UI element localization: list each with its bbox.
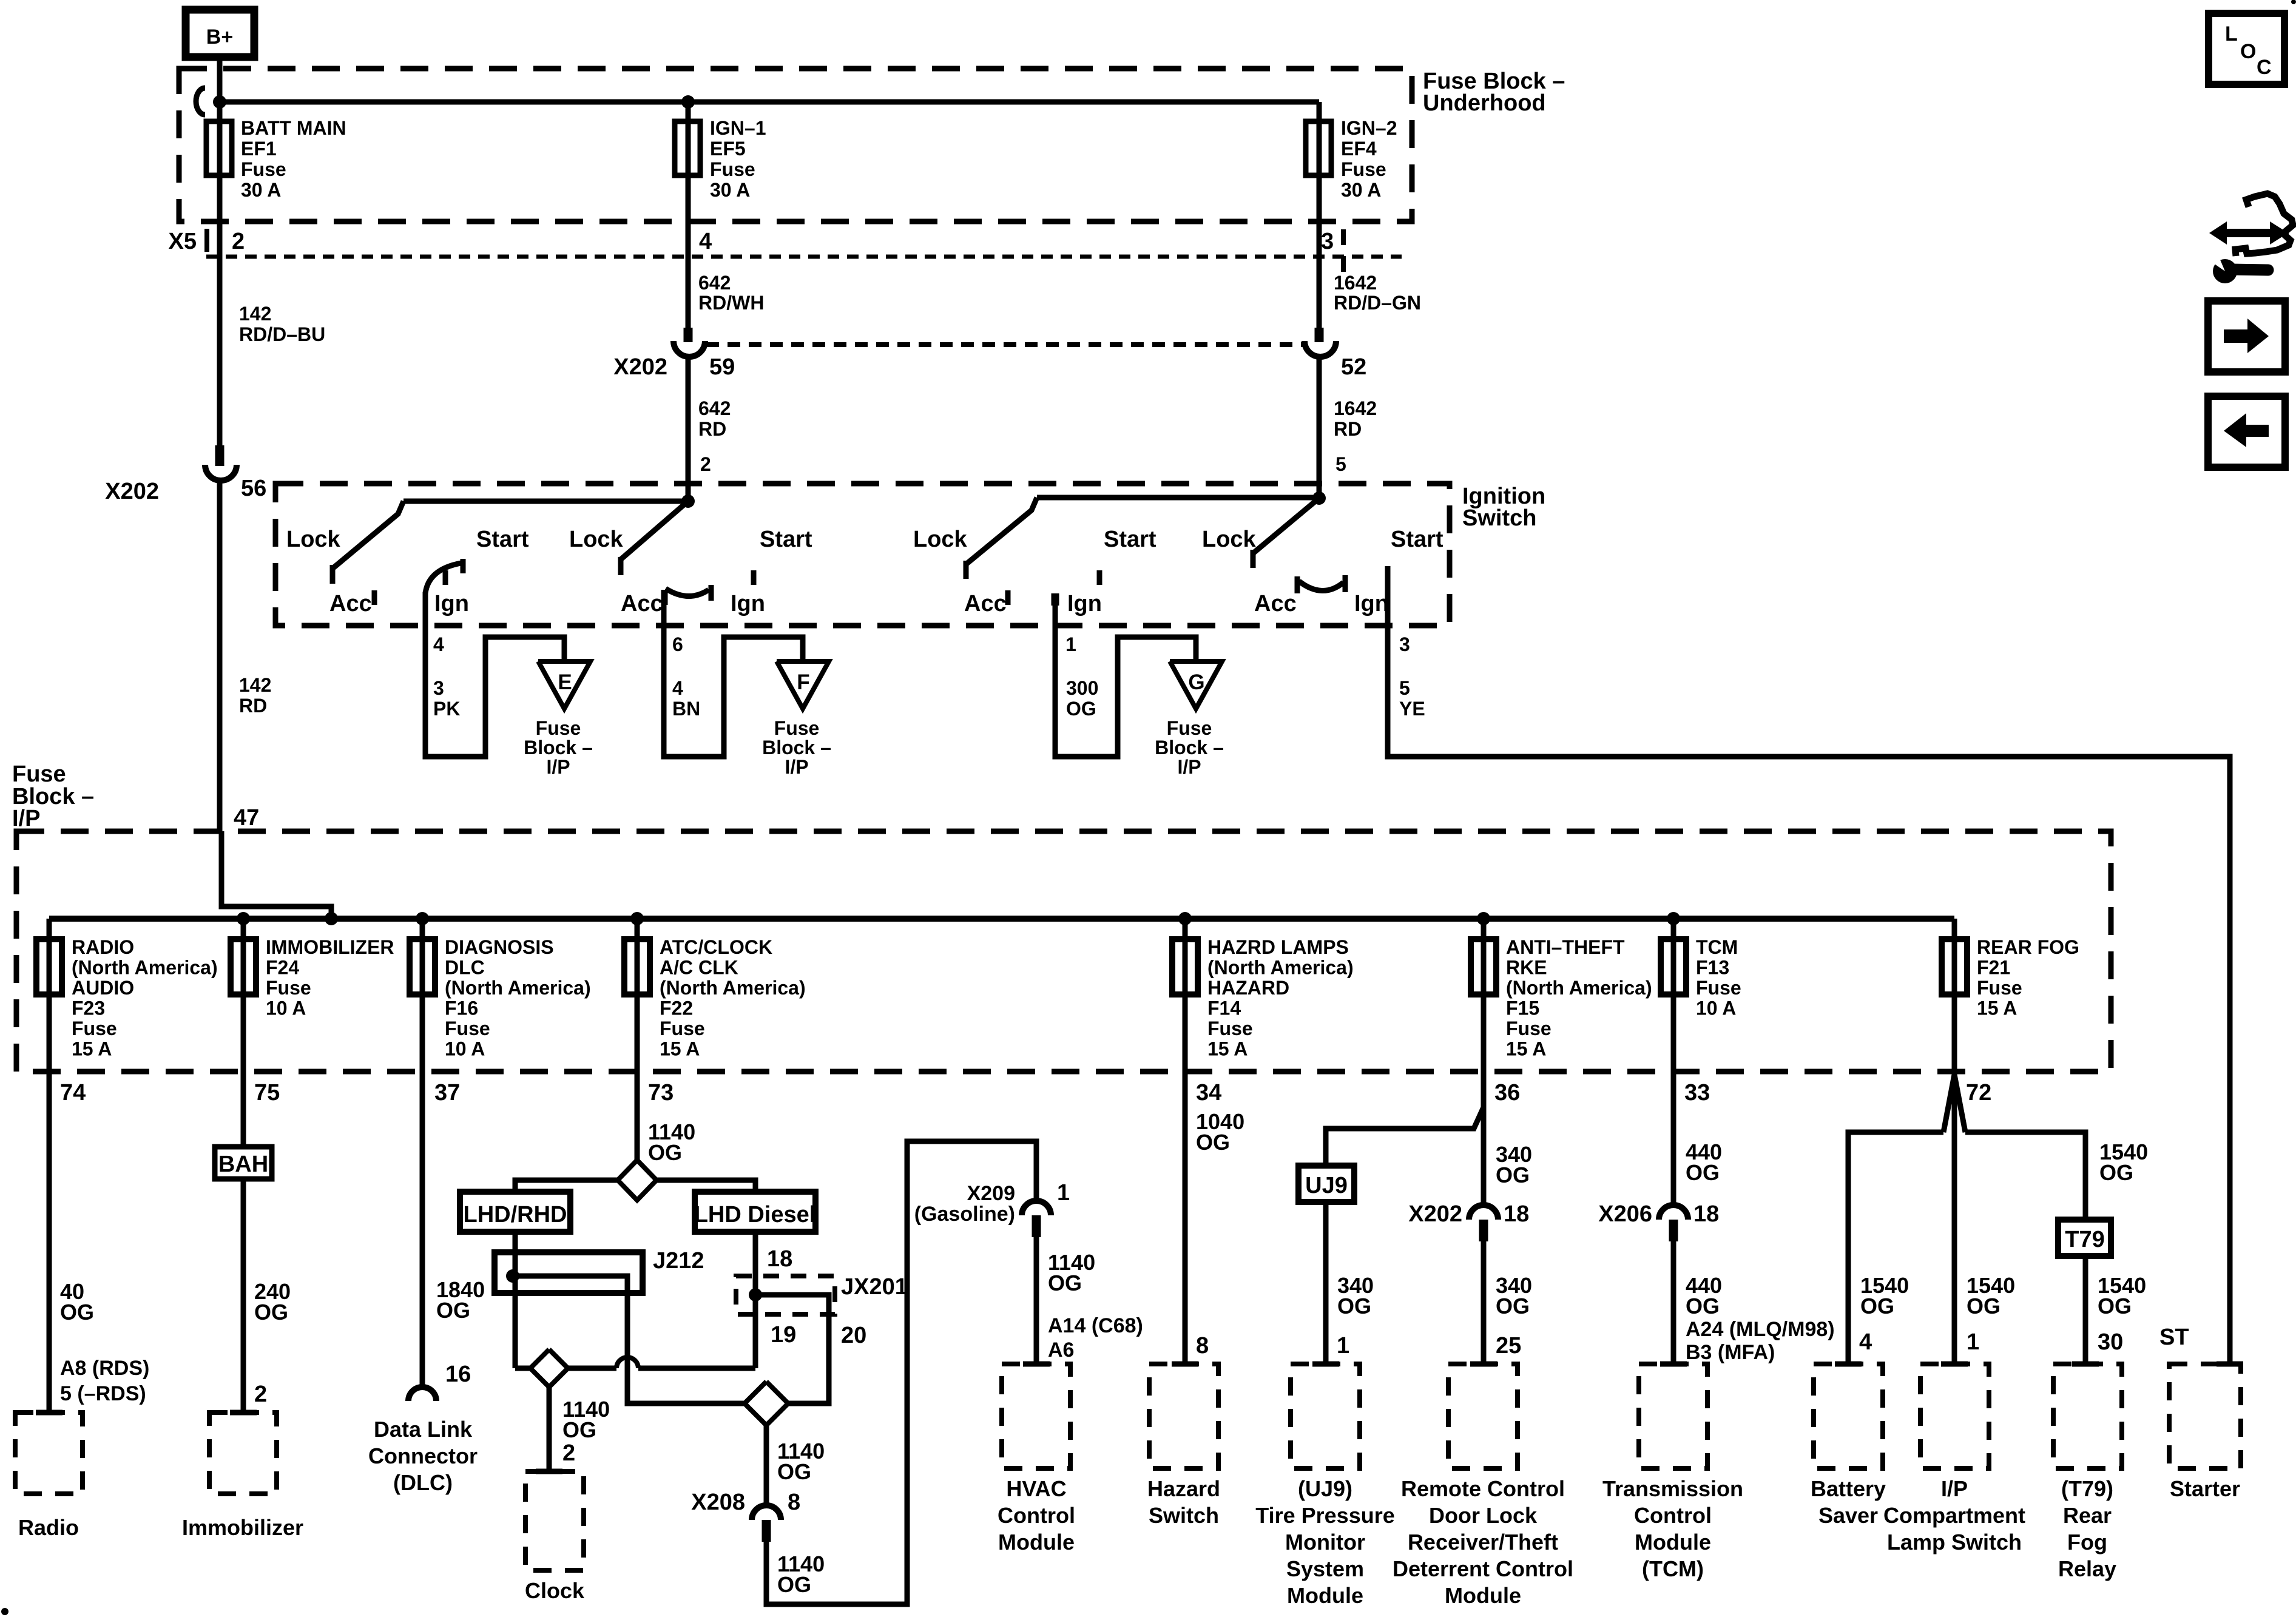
label JX201 <box>841 1274 908 1300</box>
label Acc 3 <box>964 591 1007 616</box>
splice diamond J1 <box>618 1160 657 1200</box>
svg-text:10 A: 10 A <box>266 998 306 1019</box>
wire LHD/RHD to J212 <box>513 1232 518 1278</box>
svg-text:OG: OG <box>1048 1271 1082 1295</box>
svg-text:Monitor: Monitor <box>1285 1530 1365 1555</box>
HVAC module box <box>1002 1364 1070 1468</box>
svg-text:73: 73 <box>648 1080 674 1106</box>
junction node anti-theft tap <box>1477 912 1490 925</box>
svg-text:C: C <box>2257 56 2272 79</box>
label Acc 2 <box>621 591 663 616</box>
svg-text:Fuse: Fuse <box>1167 717 1212 739</box>
label 300 OG <box>1066 677 1098 720</box>
wire T79 to relay <box>2083 1256 2088 1364</box>
wire ignition 2 Ign to fuse block <box>664 590 803 757</box>
connector arc at B+ bus entry <box>196 88 205 115</box>
wire X202-18 to door lock module <box>1481 1241 1487 1364</box>
fuse F23 RADIO <box>36 919 62 1072</box>
fuse EF4 IGN-2 <box>1306 102 1331 328</box>
fuse EF1 BATT MAIN <box>206 102 232 328</box>
wire X209 to HVAC <box>1034 1237 1039 1364</box>
svg-text:5 (–RDS): 5 (–RDS) <box>60 1382 146 1405</box>
BAH option box <box>215 1147 272 1179</box>
svg-text:TCM: TCM <box>1696 936 1738 958</box>
back arrow box <box>2208 396 2285 467</box>
label Start 2 <box>760 527 812 552</box>
pin 5 above ignition switch <box>1335 453 1346 475</box>
svg-text:Fuse: Fuse <box>1977 977 2022 999</box>
UJ9 option box <box>1298 1166 1354 1202</box>
svg-text:OG: OG <box>1686 1160 1720 1185</box>
Ignition Switch dashed box <box>275 484 1450 626</box>
svg-text:F24: F24 <box>266 957 299 979</box>
svg-text:59: 59 <box>709 354 735 380</box>
label Ign 2 <box>731 591 765 616</box>
svg-text:RADIO: RADIO <box>72 936 134 958</box>
Clock module box <box>525 1471 584 1570</box>
svg-text:X202: X202 <box>105 479 159 504</box>
Fuse Block I/P dashed box <box>16 831 2111 1072</box>
wire splice to LHD/RHD <box>515 1180 618 1192</box>
svg-text:Lamp Switch: Lamp Switch <box>1887 1530 2022 1555</box>
Radio module box <box>15 1413 83 1494</box>
svg-text:A14 (C68): A14 (C68) <box>1048 1314 1143 1337</box>
merge arrow into pin 72 <box>1943 1075 1965 1132</box>
label 1642 RD/D-GN <box>1334 272 1421 314</box>
svg-text:30 A: 30 A <box>1341 179 1381 201</box>
svg-text:Door Lock: Door Lock <box>1429 1503 1538 1528</box>
junction node hazard tap <box>1178 912 1192 925</box>
svg-text:(DLC): (DLC) <box>393 1470 453 1495</box>
svg-text:X5: X5 <box>169 229 197 254</box>
svg-text:ATC/CLOCK: ATC/CLOCK <box>660 936 772 958</box>
svg-text:(North America): (North America) <box>72 957 218 979</box>
svg-text:Module: Module <box>998 1530 1075 1555</box>
svg-text:10 A: 10 A <box>1696 998 1736 1019</box>
svg-text:L: L <box>2225 22 2238 46</box>
fuse F22 ATC/CLOCK <box>624 919 650 1072</box>
svg-text:3: 3 <box>433 677 444 699</box>
fuse F14 HAZRD LAMPS <box>1172 919 1198 1072</box>
svg-text:15 A: 15 A <box>1977 998 2017 1019</box>
svg-text:I/P: I/P <box>785 756 808 778</box>
svg-text:6: 6 <box>672 633 683 655</box>
svg-text:Lock: Lock <box>286 527 341 552</box>
ignition switch 3 feed bus <box>1037 495 1319 501</box>
svg-text:(North America): (North America) <box>1506 977 1652 999</box>
label 1140 OG HVAC <box>1048 1250 1095 1295</box>
Door Lock module box <box>1448 1364 1518 1468</box>
svg-text:F13: F13 <box>1696 957 1729 979</box>
switch 4 Acc contact <box>1295 576 1300 593</box>
svg-text:Switch: Switch <box>1149 1503 1219 1528</box>
pin 25 door lock <box>1496 1333 1521 1359</box>
switch 1 Ign contact curve <box>425 559 463 593</box>
svg-text:Fuse: Fuse <box>660 1018 705 1039</box>
svg-text:72: 72 <box>1966 1080 1991 1106</box>
svg-text:RD: RD <box>1334 418 1362 440</box>
svg-text:X202: X202 <box>1408 1201 1462 1227</box>
svg-text:RD: RD <box>239 695 267 717</box>
label 440 OG upper <box>1686 1139 1722 1185</box>
X5 connector row dotted line <box>206 255 1402 259</box>
svg-text:EF5: EF5 <box>710 138 746 160</box>
svg-text:Lock: Lock <box>569 527 624 552</box>
svg-text:OG: OG <box>60 1300 94 1325</box>
svg-text:DIAGNOSIS: DIAGNOSIS <box>445 936 554 958</box>
forward arrow box <box>2208 301 2285 372</box>
svg-text:18: 18 <box>1693 1201 1719 1227</box>
label 40 OG <box>60 1279 94 1325</box>
connector X202 pin 59 on IGN-1 wire <box>674 328 705 501</box>
TPMS module box <box>1291 1364 1360 1468</box>
junction node in J212 <box>506 1269 519 1283</box>
label Starter <box>2170 1476 2240 1501</box>
svg-text:Fuse: Fuse <box>1207 1018 1253 1039</box>
wire branch to UJ9 <box>1326 1107 1484 1166</box>
svg-text:JX201: JX201 <box>841 1274 908 1300</box>
svg-text:Clock: Clock <box>525 1578 585 1603</box>
label 142 RD/D-BU <box>239 303 325 345</box>
label 240 OG <box>254 1279 291 1325</box>
pin 47 <box>234 805 259 831</box>
svg-text:Lock: Lock <box>1202 527 1257 552</box>
label fuse F14 HAZRD LAMPS <box>1207 936 1354 1060</box>
connector X202 pin 56 on 142 wire <box>205 175 237 831</box>
svg-text:4: 4 <box>1859 1329 1872 1355</box>
wire splice J2 to clock <box>547 1387 552 1471</box>
label Remote Control module <box>1393 1476 1573 1608</box>
svg-text:1: 1 <box>1065 633 1076 655</box>
fuse F21 REAR FOG <box>1942 919 1967 1072</box>
svg-text:OG: OG <box>1066 698 1096 720</box>
splice pack J212 box <box>495 1252 643 1293</box>
label BATT MAIN EF1 <box>241 117 346 201</box>
JX201 dashed box <box>736 1276 835 1314</box>
fuse F15 ANTI-THEFT <box>1471 919 1496 1072</box>
pin 4 battery saver <box>1859 1329 1872 1355</box>
svg-text:Acc: Acc <box>621 591 663 616</box>
svg-text:OG: OG <box>1860 1294 1894 1318</box>
svg-text:OG: OG <box>1337 1294 1371 1318</box>
svg-text:(UJ9): (UJ9) <box>1298 1476 1352 1501</box>
pin 16 DLC <box>445 1362 471 1387</box>
svg-text:X202: X202 <box>613 354 667 380</box>
svg-text:Acc: Acc <box>1254 591 1297 616</box>
label A24 MLQ/M98 <box>1686 1318 1835 1341</box>
pin 37 below I/P box <box>434 1080 460 1106</box>
svg-text:DLC: DLC <box>445 957 485 979</box>
service icon panel outline <box>2235 194 2293 256</box>
label J212 <box>653 1248 704 1274</box>
svg-text:18: 18 <box>767 1246 792 1272</box>
svg-text:X208: X208 <box>691 1490 745 1515</box>
svg-text:OG: OG <box>777 1459 811 1484</box>
svg-text:1: 1 <box>1337 1333 1349 1359</box>
wire J3 to X208 <box>764 1425 769 1505</box>
switch 3 Start contact <box>1097 570 1102 585</box>
svg-text:Start: Start <box>760 527 812 552</box>
wire rear fog to arrow <box>1952 994 1957 1364</box>
service icon arrow <box>2209 221 2288 245</box>
Fuse Block - Underhood dashed box <box>179 69 1412 221</box>
svg-text:A8 (RDS): A8 (RDS) <box>60 1357 149 1380</box>
Hazard module box <box>1149 1364 1218 1468</box>
junction node ATC tap <box>630 912 644 925</box>
svg-text:RD/D–BU: RD/D–BU <box>239 323 325 345</box>
svg-text:EF1: EF1 <box>241 138 277 160</box>
svg-text:IMMOBILIZER: IMMOBILIZER <box>266 936 394 958</box>
svg-text:1: 1 <box>1057 1180 1070 1206</box>
junction node diagnosis tap <box>416 912 429 925</box>
switch 3 wiper to Lock <box>966 498 1037 579</box>
svg-text:J212: J212 <box>653 1248 704 1274</box>
svg-text:(North America): (North America) <box>660 977 806 999</box>
svg-text:142: 142 <box>239 674 271 696</box>
junction node TCM tap <box>1667 912 1680 925</box>
svg-text:30 A: 30 A <box>710 179 750 201</box>
svg-text:Fuse: Fuse <box>241 158 286 180</box>
switch 4 wiper to Lock <box>1253 498 1319 568</box>
connector X202 pin 52 on IGN-2 wire <box>1305 328 1336 498</box>
svg-text:15 A: 15 A <box>1506 1038 1546 1060</box>
svg-text:B+: B+ <box>206 25 233 49</box>
switch 1 wiper to Lock <box>333 501 403 584</box>
svg-text:BN: BN <box>672 698 700 720</box>
connector F triangle <box>777 661 829 709</box>
switch 2 Ign contact arc <box>666 585 711 601</box>
X5 row right tick <box>1341 229 1346 274</box>
label 1140 OG below X208 <box>777 1551 825 1597</box>
label X202 at 142 wire <box>105 479 159 504</box>
label 5 YE <box>1399 677 1425 720</box>
label Tire Pressure module <box>1255 1476 1394 1608</box>
label fuse F21 REAR FOG <box>1977 936 2079 1019</box>
label X206 <box>1598 1201 1652 1227</box>
svg-text:Fuse: Fuse <box>536 717 581 739</box>
svg-text:8: 8 <box>788 1490 800 1515</box>
svg-text:E: E <box>558 670 572 694</box>
svg-text:Acc: Acc <box>329 591 372 616</box>
svg-text:Module: Module <box>1287 1583 1363 1608</box>
svg-text:EF4: EF4 <box>1341 138 1377 160</box>
pin 1 X209 <box>1057 1180 1070 1206</box>
wire ATC 1140 OG <box>635 1072 640 1160</box>
svg-text:30 A: 30 A <box>241 179 281 201</box>
pin 2 at X5 BATT wire <box>232 229 245 254</box>
LOC reference box <box>2209 13 2284 84</box>
label B3 MFA <box>1686 1341 1775 1364</box>
svg-text:Compartment: Compartment <box>1883 1503 2025 1528</box>
svg-text:3: 3 <box>1399 633 1410 655</box>
wire merge horizontal left <box>1848 1132 1943 1364</box>
svg-text:HVAC: HVAC <box>1006 1476 1066 1501</box>
label 1540 OG T79 lower <box>2098 1273 2146 1318</box>
svg-text:(North America): (North America) <box>1207 957 1354 979</box>
label Fuse Block I/P under G <box>1155 717 1224 778</box>
pin 33 below I/P box <box>1684 1080 1710 1106</box>
label Acc 4 <box>1254 591 1297 616</box>
svg-text:Immobilizer: Immobilizer <box>182 1515 303 1540</box>
fuse F16 DIAGNOSIS <box>410 919 435 1072</box>
pin 18 X202 <box>1504 1201 1529 1227</box>
pin 74 below I/P box <box>60 1080 86 1106</box>
pin 3 ignition 4 <box>1399 633 1410 655</box>
connector X202 pin 18 <box>1469 1205 1498 1241</box>
svg-text:RD: RD <box>698 418 726 440</box>
svg-text:OG: OG <box>648 1140 682 1165</box>
wire X208 to X209 riser <box>766 1141 1036 1604</box>
svg-text:OG: OG <box>1196 1130 1230 1155</box>
svg-text:33: 33 <box>1684 1080 1710 1106</box>
label fuse F13 TCM <box>1696 936 1741 1019</box>
svg-text:I/P: I/P <box>12 806 40 831</box>
svg-text:Remote Control: Remote Control <box>1401 1476 1565 1501</box>
svg-text:20: 20 <box>841 1323 866 1348</box>
svg-text:642: 642 <box>698 397 731 419</box>
svg-text:Ign: Ign <box>1067 591 1102 616</box>
wire splice J2 to JX201 pin 19 <box>568 1295 755 1368</box>
label Transmission Control Module <box>1602 1476 1743 1581</box>
wire anti-theft main <box>1481 1072 1487 1205</box>
label Data Link Connector DLC <box>368 1417 478 1495</box>
connector X209 pin 1 <box>1022 1201 1051 1237</box>
label 340 OG UJ9 <box>1337 1273 1374 1318</box>
wire TCM 440 OG <box>1671 1072 1676 1205</box>
junction node IGN-2 ignition <box>1312 491 1326 505</box>
svg-text:1: 1 <box>1967 1329 1979 1355</box>
svg-text:RD/D–GN: RD/D–GN <box>1334 292 1421 314</box>
label Lock 4 <box>1202 527 1257 552</box>
svg-text:Rear: Rear <box>2063 1503 2112 1528</box>
label Start 1 <box>476 527 529 552</box>
junction node 142 feed <box>325 912 338 925</box>
svg-text:F16: F16 <box>445 998 478 1019</box>
svg-text:OG: OG <box>562 1417 596 1442</box>
label Lock 3 <box>913 527 968 552</box>
svg-text:8: 8 <box>1196 1333 1209 1359</box>
svg-text:X206: X206 <box>1598 1201 1652 1227</box>
wire from B+ down to bus <box>217 57 223 103</box>
svg-text:Fuse: Fuse <box>1696 977 1741 999</box>
label 1040 OG <box>1196 1109 1244 1155</box>
J212 internal bus <box>513 1276 745 1403</box>
switch 2 Start contact <box>751 570 757 585</box>
svg-text:Tire Pressure: Tire Pressure <box>1255 1503 1394 1528</box>
wire UJ9 to TPMS <box>1323 1202 1329 1364</box>
LHD/RHD option box <box>460 1192 570 1232</box>
label 340 OG lower <box>1496 1273 1532 1318</box>
svg-text:I/P: I/P <box>546 756 570 778</box>
svg-text:4: 4 <box>699 229 712 254</box>
pin 8 X208 <box>788 1490 800 1515</box>
junction node at IGN-1 tap <box>681 95 695 109</box>
svg-text:5: 5 <box>1335 453 1346 475</box>
svg-text:Fuse: Fuse <box>72 1018 117 1039</box>
svg-text:16: 16 <box>445 1362 471 1387</box>
wire immobilizer 240 OG lower <box>241 1179 246 1413</box>
pin 2 immobilizer <box>254 1382 267 1407</box>
junction node at B+ wire <box>213 95 226 109</box>
svg-text:Module: Module <box>1635 1530 1711 1555</box>
T79 Rear Fog Relay module box <box>2053 1364 2122 1468</box>
label A14 C68 <box>1048 1314 1143 1337</box>
svg-text:36: 36 <box>1494 1080 1520 1106</box>
label Fuse Block I/P under E <box>524 717 593 778</box>
label Clock <box>525 1578 585 1603</box>
svg-text:37: 37 <box>434 1080 460 1106</box>
label Start 3 <box>1104 527 1156 552</box>
svg-text:(North America): (North America) <box>445 977 591 999</box>
svg-text:Start: Start <box>476 527 529 552</box>
LHD Diesel option box <box>694 1192 816 1232</box>
svg-text:HAZARD: HAZARD <box>1207 977 1289 999</box>
pin 59 <box>709 354 735 380</box>
pin 20 JX201 <box>841 1323 866 1348</box>
svg-text:642: 642 <box>698 272 731 294</box>
svg-text:G: G <box>1188 670 1204 694</box>
switch 2 Acc contact <box>663 590 668 605</box>
label 1540 OG lamp switch <box>1967 1273 2015 1318</box>
svg-text:Receiver/Theft: Receiver/Theft <box>1408 1530 1558 1555</box>
label IGN-2 EF4 <box>1341 117 1397 201</box>
label 642 RD/WH <box>698 272 764 314</box>
svg-text:2: 2 <box>562 1440 575 1466</box>
svg-text:ANTI–THEFT: ANTI–THEFT <box>1506 936 1625 958</box>
svg-text:OG: OG <box>777 1572 811 1597</box>
label Ign 3 <box>1067 591 1102 616</box>
pin 75 below I/P box <box>254 1080 280 1106</box>
svg-text:LHD Diesel: LHD Diesel <box>694 1202 816 1227</box>
label Battery Saver <box>1811 1476 1886 1528</box>
wire 142 feed into bus <box>221 831 331 920</box>
label 3 PK <box>433 677 460 720</box>
svg-text:Module: Module <box>1445 1583 1521 1608</box>
svg-text:Control: Control <box>998 1503 1075 1528</box>
svg-text:A6: A6 <box>1048 1338 1074 1362</box>
svg-text:Ign: Ign <box>434 591 469 616</box>
X202 harness dotted line <box>706 342 1303 347</box>
svg-text:2: 2 <box>254 1382 267 1407</box>
svg-text:A/C CLK: A/C CLK <box>660 957 738 979</box>
label 1140 OG above X208 <box>777 1439 825 1484</box>
label fuse F15 ANTI-THEFT <box>1506 936 1652 1060</box>
label X209 Gasoline <box>914 1182 1015 1226</box>
svg-text:X209: X209 <box>967 1182 1015 1205</box>
junction node JX201 <box>749 1288 762 1301</box>
label Immobilizer <box>182 1515 303 1540</box>
svg-text:Starter: Starter <box>2170 1476 2240 1501</box>
svg-text:AUDIO: AUDIO <box>72 977 134 999</box>
label 1540 OG battery saver <box>1860 1273 1909 1318</box>
wire ignition 3 Ign to fuse block <box>1055 593 1196 757</box>
svg-text:25: 25 <box>1496 1333 1521 1359</box>
pin 3 at X5 IGN-2 wire <box>1321 229 1334 254</box>
label fuse F23 RADIO <box>72 936 218 1060</box>
svg-text:Fuse: Fuse <box>12 761 66 787</box>
pin 72 below I/P box <box>1966 1080 1991 1106</box>
svg-text:PK: PK <box>433 698 460 720</box>
label Ignition Switch <box>1462 484 1545 531</box>
svg-text:Underhood: Underhood <box>1423 90 1546 116</box>
svg-text:Start: Start <box>1104 527 1156 552</box>
wire J212 to splice J2 <box>513 1276 518 1368</box>
svg-text:Lock: Lock <box>913 527 968 552</box>
Starter module box <box>2169 1364 2243 1468</box>
service icon wrench <box>2209 255 2268 283</box>
svg-text:5: 5 <box>1399 677 1410 699</box>
switch 4 Ign contact arc <box>1299 575 1345 592</box>
